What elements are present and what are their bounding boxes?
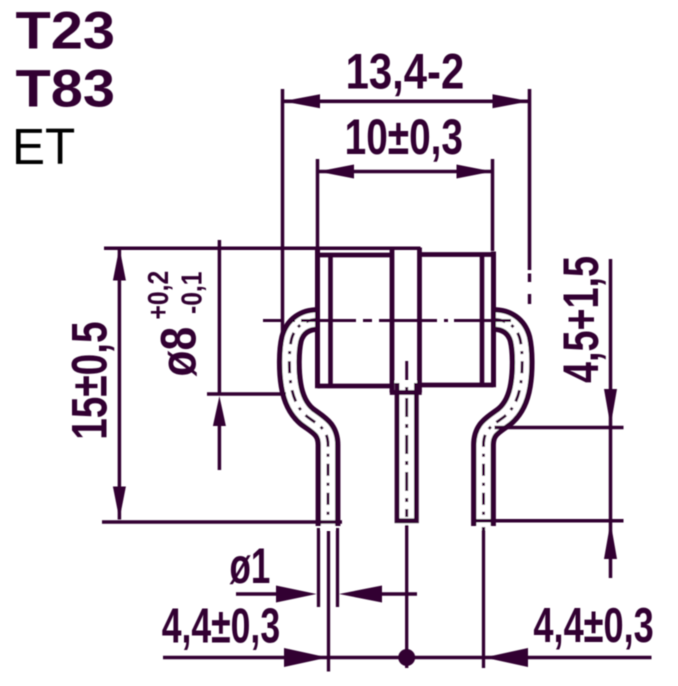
svg-text:ET: ET xyxy=(12,118,75,175)
svg-text:T83: T83 xyxy=(16,59,116,118)
dim ø1 xyxy=(236,586,417,603)
svg-text:T23: T23 xyxy=(16,1,116,60)
centerline left lead xyxy=(289,320,328,521)
dim 10±0,3 xyxy=(318,159,493,251)
svg-text:4,4±0,3: 4,4±0,3 xyxy=(162,599,280,654)
dim 15±0,5 xyxy=(102,248,421,523)
centerline center lead xyxy=(405,361,408,517)
lead L1 left outer lead xyxy=(289,320,328,531)
centerline right lead xyxy=(484,320,523,521)
dim 13,4-2 xyxy=(283,89,530,334)
dim 4,4±0,3 bottom xyxy=(163,648,652,667)
dim 4,5+1,5 xyxy=(474,259,624,578)
cap K2 right cap inner edge xyxy=(480,255,485,386)
svg-text:4,4±0,3: 4,4±0,3 xyxy=(533,599,653,654)
centerline body axis (dash-dot) xyxy=(263,319,511,322)
extension lines lead tips xyxy=(319,525,484,672)
svg-text:-0,1: -0,1 xyxy=(176,272,208,314)
lead L2 center lead xyxy=(395,381,419,525)
center electrode band xyxy=(390,248,422,393)
body ceramic outline xyxy=(318,250,494,388)
svg-text:ø8: ø8 xyxy=(150,327,206,377)
svg-text:4,5+1,5: 4,5+1,5 xyxy=(554,256,609,383)
lead L3 right outer lead xyxy=(484,320,523,531)
svg-text:13,4-2: 13,4-2 xyxy=(346,43,465,99)
svg-text:+0,2: +0,2 xyxy=(142,271,174,320)
svg-text:15±0,5: 15±0,5 xyxy=(62,321,118,439)
svg-text:10±0,3: 10±0,3 xyxy=(345,109,463,165)
cap K1 left cap inner edge xyxy=(328,255,333,386)
dim ø8 xyxy=(207,240,286,470)
svg-text:ø1: ø1 xyxy=(230,539,271,595)
